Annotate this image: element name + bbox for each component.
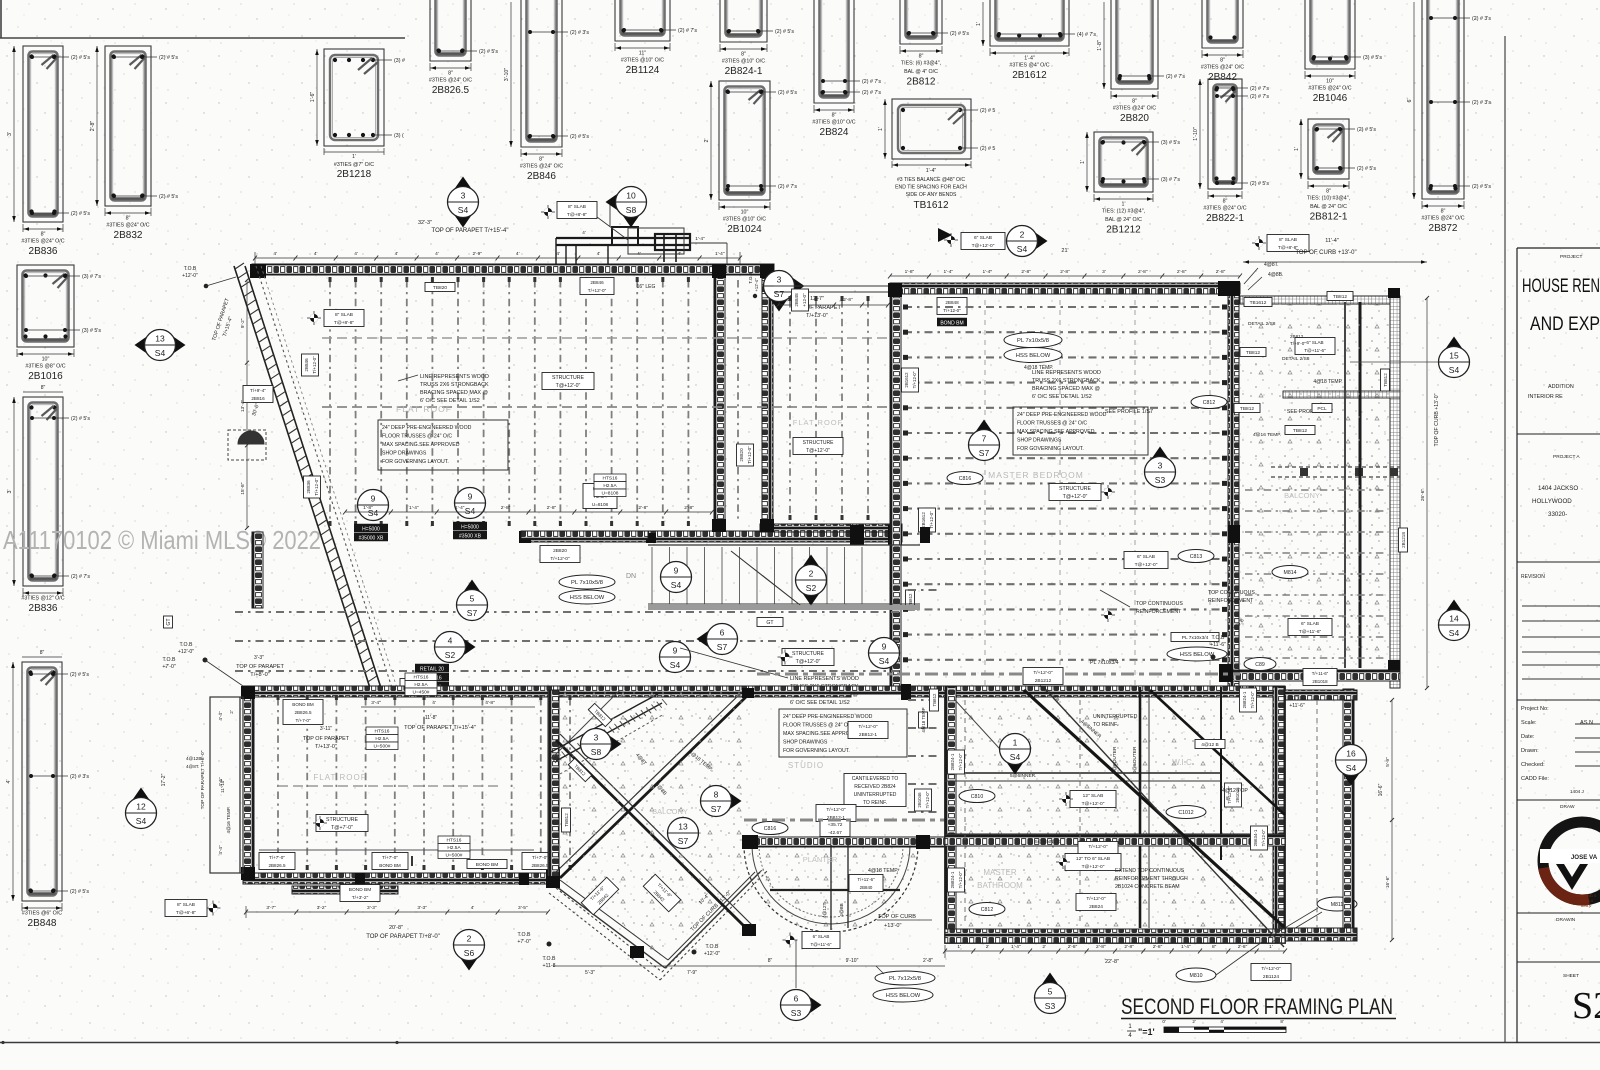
svg-text:8" SLAB: 8" SLAB [1279,237,1297,243]
svg-text:TB812: TB812 [1246,350,1260,356]
svg-text:2B826.5: 2B826.5 [268,863,286,868]
svg-text:JOSE VA: JOSE VA [1571,854,1598,861]
svg-text:S7: S7 [774,289,785,299]
svg-text:3'-10": 3'-10" [504,68,510,82]
svg-text:REVISION: REVISION [1521,574,1545,580]
pre-engineered note upper-left [378,420,508,470]
svg-text:T/+7'-0": T/+7'-0" [382,855,398,860]
svg-text:1': 1' [352,154,356,160]
svg-text:MASTER BEDROOM: MASTER BEDROOM [988,470,1084,480]
section marker 5/S7 [457,580,488,621]
svg-text:2B1212: 2B1212 [1106,225,1141,236]
svg-text:2B820: 2B820 [553,548,567,554]
svg-text:H=5000: H=5000 [362,526,380,532]
svg-text:T@+12'-0": T@+12'-0" [1082,864,1105,870]
svg-text:2B1046: 2B1046 [917,792,922,808]
svg-text:1'-4": 1'-4" [715,251,725,257]
svg-text:T/+11'-6": T/+11'-6" [857,877,875,882]
svg-text:2B812: 2B812 [1290,334,1304,339]
svg-text:2B824-1: 2B824-1 [950,753,955,770]
svg-text:T/+12-0": T/+12-0" [312,356,317,374]
planter半circle [742,835,948,932]
section marker 8/S7 [701,786,742,817]
svg-text:2B634-1: 2B634-1 [1253,829,1258,846]
svg-text:PL 7x12x5/8: PL 7x12x5/8 [889,976,921,982]
svg-text:4@6OUTER: 4@6OUTER [1132,746,1138,774]
svg-text:T/+12-0": T/+12-0" [1261,829,1266,846]
svg-text:+12'-0": +12'-0" [178,649,194,655]
right building walls [890,283,1240,294]
svg-text:9: 9 [674,566,679,576]
lower-left interior labels [259,849,534,851]
small boxes along corridor x902-945 [919,707,928,732]
svg-text:4@8B.: 4@8B. [1268,272,1283,278]
svg-text:1': 1' [878,127,884,131]
svg-text:C812: C812 [1203,400,1216,406]
svg-text:(2) # 5: (2) # 5 [980,108,995,114]
svg-text:9'-10": 9'-10" [846,958,859,964]
svg-text:2B842: 2B842 [1208,72,1237,83]
labels above bathroom [1023,668,1063,685]
svg-text:T/+12-0": T/+12-0" [943,308,961,313]
svg-text:T.O.B: T.O.B [748,272,753,284]
svg-text:TOP OF PARAPET T/+8'-0": TOP OF PARAPET T/+8'-0" [366,934,440,940]
strongback dashed line horiz [322,406,888,408]
svg-text:T@+11'-6": T@+11'-6" [810,942,831,947]
svg-text:T@+11'-6": T@+11'-6" [1304,348,1326,353]
svg-text:T/+13'-0": T/+13'-0" [806,313,828,319]
svg-text:14: 14 [1449,614,1459,624]
section marker 6/S7 [697,624,738,655]
svg-text:6: 6 [794,994,799,1004]
svg-text:T/+8'-0": T/+8'-0" [250,672,269,678]
svg-text:3': 3' [7,132,13,136]
svg-text:#3TIES @8" O/C: #3TIES @8" O/C [25,364,65,370]
svg-text:4': 4' [435,251,439,257]
svg-text:S4: S4 [1346,763,1357,773]
svg-text:PLANTER: PLANTER [803,855,838,864]
svg-text:#3TIES @24" O/C: #3TIES @24" O/C [1113,106,1156,112]
svg-text:16" LEG: 16" LEG [637,284,656,290]
svg-text:CADD File:: CADD File: [1521,776,1549,782]
svg-text:2B846: 2B846 [590,280,604,285]
svg-text:TOP OF PARAPET: TOP OF PARAPET [236,664,284,670]
svg-text:10": 10" [42,357,50,363]
svg-text:TB820: TB820 [433,285,447,291]
beam section detail 2B826.5 [429,0,498,96]
svg-text:8": 8" [41,385,46,391]
svg-text:1'-4": 1'-4" [1011,944,1021,950]
beam section detail 2B1124 [615,0,697,76]
svg-text:9: 9 [673,646,678,656]
svg-text:T@+11'-6": T@+11'-6" [1299,629,1322,635]
svg-text:Checked:: Checked: [1521,762,1545,768]
thick strongback line near planter [744,819,945,822]
beam section detail 2B832 [90,46,178,241]
svg-text:1': 1' [1269,944,1273,950]
svg-text:1': 1' [1122,202,1126,208]
svg-text:S4: S4 [1010,752,1021,762]
svg-text:22'-8": 22'-8" [1105,959,1119,965]
svg-text:A11170102 © Miami MLS® 2022: A11170102 © Miami MLS® 2022 [3,525,321,555]
svg-text:#3TIES @24" O/C: #3TIES @24" O/C [1308,86,1351,92]
section marker 3/S3 [1145,447,1176,488]
svg-text:HTS16: HTS16 [447,838,462,844]
svg-text:6' O/C SEE DETAIL 1/S2: 6' O/C SEE DETAIL 1/S2 [1032,394,1092,400]
svg-text:W.I.C: W.I.C [1172,758,1192,767]
svg-text:16'-6": 16'-6" [1378,783,1384,796]
svg-text:1: 1 [1013,738,1018,748]
svg-text:STRUCTURE: STRUCTURE [1059,486,1092,492]
svg-text:2': 2' [229,710,234,714]
svg-text:6' O/C SEE DETAIL 1/S2: 6' O/C SEE DETAIL 1/S2 [420,398,480,404]
title block [1517,248,1600,1043]
svg-text:TO REINF.: TO REINF. [863,800,887,806]
svg-text:DRAWIN: DRAWIN [1556,917,1576,923]
svg-text:BAL @ 4" O/C: BAL @ 4" O/C [904,69,938,75]
svg-text:12" TO 6" SLAB: 12" TO 6" SLAB [1076,856,1110,862]
svg-text:TRUSS 2X6 STRONGBACK: TRUSS 2X6 STRONGBACK [420,382,489,388]
svg-text:Drawn:: Drawn: [1521,748,1539,754]
svg-text:BALCONY: BALCONY [1284,491,1320,500]
svg-text:6': 6' [1407,99,1413,103]
svg-text:S4: S4 [155,348,166,358]
svg-text:S4: S4 [671,580,682,590]
svg-text:(3) # 5's: (3) # 5's [1161,140,1180,146]
svg-text:8": 8" [768,958,773,964]
svg-text:2B1218: 2B1218 [1401,532,1406,548]
beam section detail 2B836 [7,397,90,614]
svg-text:T@+12'-0": T@+12'-0" [556,383,581,389]
svg-text:TOP OF CURB: TOP OF CURB [878,914,916,920]
svg-text:T.O.B: T.O.B [163,657,177,663]
svg-text:1'-4": 1'-4" [944,269,954,275]
svg-text:2'-8": 2'-8" [1177,269,1187,275]
svg-text:M811: M811 [1331,902,1344,908]
svg-text:T/+12'-0": T/+12'-0" [1033,670,1053,676]
sheet border bottom [0,1042,1600,1044]
svg-text:2B816: 2B816 [251,396,265,401]
svg-text:2B1046: 2B1046 [1313,93,1348,104]
svg-text:FLAT ROOF: FLAT ROOF [313,773,366,782]
studio open area [235,611,900,613]
svg-text:4@12B.: 4@12B. [186,756,203,761]
svg-text:(2) # 7's: (2) # 7's [1250,94,1269,100]
svg-text:2B822-1: 2B822-1 [1206,213,1244,224]
svg-text:+11'-6": +11'-6" [1289,703,1305,709]
svg-text:PCL: PCL [1317,406,1327,412]
svg-text:HSS BELOW: HSS BELOW [886,993,921,999]
svg-text:8": 8" [40,650,45,656]
svg-text:FLAT ROOF: FLAT ROOF [793,418,843,427]
svg-text:TOP OF CURB +13'-0": TOP OF CURB +13'-0" [1434,393,1440,446]
8 slab box top right [1255,239,1263,247]
beam section detail 2B872 [1407,0,1491,234]
beam section detail 2B836 [7,46,90,257]
upper-left room truss dash lines [329,280,331,526]
svg-text:C816: C816 [764,826,777,832]
svg-text:H=5000: H=5000 [461,524,479,530]
svg-text:5'-3": 5'-3" [585,970,595,976]
section marker 2/S2 [796,555,827,606]
svg-text:T.O.B: T.O.B [184,266,197,272]
svg-text:4': 4' [395,251,399,257]
section marker 9/S4 [660,642,691,673]
section marker 12/S4 [126,788,157,829]
svg-text:2B848: 2B848 [28,918,57,929]
svg-text:10": 10" [741,210,749,216]
svg-text:T.O.B: T.O.B [706,944,720,950]
svg-text:(2) # 7's: (2) # 7's [862,79,881,85]
section marker 3/S7 [764,271,805,312]
svg-text:2'-8": 2'-8" [1124,944,1134,950]
svg-text:2'-8": 2'-8" [1068,944,1078,950]
svg-text:2B840: 2B840 [860,885,873,890]
svg-text:S3: S3 [1155,475,1166,485]
svg-text:4: 4 [448,636,453,646]
svg-text:33020-: 33020- [1548,511,1567,518]
svg-text:TB812: TB812 [932,693,937,706]
svg-text:2'-8": 2'-8" [1153,944,1163,950]
svg-text:REINFORCEMENT: REINFORCEMENT [1136,609,1182,615]
svg-text:DETAIL 2/S8: DETAIL 2/S8 [1248,321,1276,327]
svg-text:S3: S3 [791,1008,802,1018]
svg-text:(2) # 7's: (2) # 7's [71,574,90,580]
svg-text:1'-4": 1'-4" [1181,944,1191,950]
svg-text:(2) # 5's: (2) # 5's [71,55,90,61]
svg-text:T/+12'-0": T/+12'-0" [588,288,607,293]
studio-strip extra truss lines [908,589,940,591]
svg-text:S4: S4 [458,205,469,215]
svg-text:STUDIO: STUDIO [788,761,824,770]
svg-text:(2) # 7's: (2) # 7's [778,184,797,190]
beam section detail 2B1016 [17,265,101,382]
svg-text:AS N: AS N [1580,720,1593,726]
svg-text:+7'-0": +7'-0" [162,664,176,670]
svg-text:+7'-0": +7'-0" [517,939,531,945]
svg-text:STRUCTURE: STRUCTURE [792,651,825,657]
svg-text:MAX SPACING.SEE APPROVED: MAX SPACING.SEE APPROVED [382,442,460,448]
svg-text:H2.5A: H2.5A [414,682,428,688]
svg-text:4@18 TEMP.: 4@18 TEMP. [1313,379,1342,385]
svg-text:2'-9": 2'-9" [473,251,483,257]
svg-text:8" SLAB: 8" SLAB [568,204,586,210]
svg-text:11'-10": 11'-10" [220,779,225,793]
svg-text:4': 4' [582,230,586,235]
svg-text:TRUSS 2X6 STRONGBACK: TRUSS 2X6 STRONGBACK [1032,378,1101,384]
svg-text:U=450#: U=450# [413,690,430,696]
mid dim row above lower-left roof [361,706,535,708]
svg-text:8": 8" [1220,58,1225,64]
svg-text:S7: S7 [979,448,990,458]
svg-text:C1012: C1012 [1178,810,1193,816]
svg-text:C813: C813 [1190,554,1203,560]
svg-text:C810: C810 [971,794,984,800]
svg-text:2'-8": 2'-8" [1238,944,1248,950]
svg-text:2B836: 2B836 [29,603,58,614]
svg-text:7'-9": 7'-9" [687,970,697,976]
svg-text:13: 13 [678,822,688,832]
svg-text:HSS BELOW: HSS BELOW [1016,353,1051,359]
svg-text:4': 4' [471,905,475,911]
beam section detail 2B812 [900,0,969,88]
svg-text:#3TIES @12" O/C: #3TIES @12" O/C [21,596,64,602]
svg-text:#3TIES @10" O/C: #3TIES @10" O/C [812,120,855,126]
svg-text:4@12 B: 4@12 B [1201,742,1218,748]
svg-text:TOP OF PARAPET T/+15'-4": TOP OF PARAPET T/+15'-4" [432,228,509,234]
svg-text:4': 4' [597,251,601,257]
beam section detail 2B820 [1097,0,1185,124]
svg-text:(3) (: (3) ( [394,133,404,139]
svg-text:2B836: 2B836 [29,246,58,257]
svg-text:6" SLAB: 6" SLAB [1301,621,1319,627]
svg-text:(2) # 5: (2) # 5 [980,146,995,152]
svg-text:2B824-1: 2B824-1 [1242,691,1247,708]
svg-text:T/+12'-0": T/+12'-0" [550,556,570,562]
svg-text:9: 9 [371,494,376,504]
svg-text:RECEIVED 2B824: RECEIVED 2B824 [854,784,896,790]
svg-text:2'-8": 2'-8" [501,505,511,511]
svg-text:2B1016: 2B1016 [28,371,63,382]
svg-text:HTS16: HTS16 [375,729,390,735]
svg-text:2B1612: 2B1612 [1012,70,1047,81]
stair area bands [521,531,648,539]
svg-text:2B812-1: 2B812-1 [1310,212,1348,223]
upper-left labels [310,314,318,322]
svg-text:2'-8": 2'-8" [1021,269,1031,275]
svg-text:2B824: 2B824 [1089,904,1103,910]
svg-text:8": 8" [1441,209,1446,215]
svg-text:4': 4' [1220,1019,1224,1024]
svg-text:12" SLAB: 12" SLAB [1083,793,1104,799]
svg-text:T@+12'-0": T@+12'-0" [1063,494,1088,500]
studio/bathroom junction bands [830,686,905,694]
svg-text:11": 11" [639,51,646,57]
upper-left room walls [252,264,774,275]
svg-text:(2) # 7's: (2) # 7's [862,90,881,96]
svg-text:(4) # 7's: (4) # 7's [1077,32,1096,38]
svg-text:6' O/C SEE DETAIL 1/S2: 6' O/C SEE DETAIL 1/S2 [790,700,850,706]
svg-text:2B824-1: 2B824-1 [950,871,955,888]
svg-text:2'-8": 2'-8" [638,505,648,511]
svg-text:BOND BM: BOND BM [349,887,371,893]
svg-text:S7: S7 [717,642,728,652]
svg-text:TB812: TB812 [564,813,569,827]
section marker 3/S4 [448,177,479,228]
svg-text:#3TIES @24" O/C: #3TIES @24" O/C [21,239,64,245]
logo JV drafting [1540,822,1600,908]
svg-text:15: 15 [1449,351,1459,361]
svg-text:3': 3' [7,490,13,494]
svg-text:M810: M810 [1190,973,1203,979]
svg-text:24" DEEP PRE-ENGINEERED WOOD: 24" DEEP PRE-ENGINEERED WOOD [1017,412,1107,418]
section marker 4/S2 [435,632,476,663]
diamond bottom dims [553,965,760,967]
svg-text:T@+8'-8": T@+8'-8" [334,320,354,326]
svg-text:H2.5A: H2.5A [375,736,389,742]
svg-text:TOP OF PARAPET T/+15'-4": TOP OF PARAPET T/+15'-4" [404,725,476,731]
beam section detail 2B1046 [1305,0,1382,104]
svg-text:9: 9 [468,492,473,502]
svg-text:FLAT ROOF: FLAT ROOF [396,404,452,414]
svg-text:TIES: (12) #3@4",: TIES: (12) #3@4", [1102,209,1145,215]
bedroom vertical dashes [984,300,986,685]
beam section detail 2B824 [812,0,881,138]
svg-text:STRUCTURE: STRUCTURE [552,375,585,381]
svg-text:ADDITION: ADDITION [1548,384,1574,390]
svg-text:T@+12'-0": T@+12'-0" [1082,801,1105,807]
svg-text:DRAFTING S: DRAFTING S [1576,894,1597,898]
svg-text:LINE REPRESENTS WOOD: LINE REPRESENTS WOOD [790,676,859,682]
svg-text:T/+11-6": T/+11-6" [1312,671,1329,676]
svg-text:C89: C89 [1255,662,1265,668]
flat roof strip right of corridor [789,300,791,520]
svg-text:2B826.5: 2B826.5 [294,710,312,715]
svg-text:2B848: 2B848 [945,300,959,305]
svg-text:(2) # 5's: (2) # 5's [1250,181,1269,187]
svg-text:3'-7": 3'-7" [266,905,276,911]
svg-text:HTS16: HTS16 [414,675,429,681]
beam section detail 2B824-1 [720,0,794,77]
svg-text:T.O.B: T.O.B [180,642,194,648]
svg-text:C816: C816 [959,476,972,482]
svg-text:BALCONY: BALCONY [652,807,688,816]
svg-text:(2) # 3's: (2) # 3's [70,774,89,780]
right wing walls [1343,689,1354,941]
svg-text:SHEET: SHEET [1563,973,1579,979]
svg-text:6" SLAB: 6" SLAB [974,235,992,241]
svg-text:12: 12 [136,802,146,812]
section marker 5/S3 [1035,973,1066,1014]
svg-text:S2: S2 [806,583,817,593]
svg-text:SECOND FLOOR FRAMING PLAN: SECOND FLOOR FRAMING PLAN [1121,994,1393,1019]
svg-text:T/+7'-0": T/+7'-0" [269,855,285,860]
section marker 7/S7 [969,420,1000,461]
sheet border top-left box [0,0,2,38]
bathroom inner verticals dashed [1079,700,1081,925]
section marker 14/S4 [1439,600,1470,641]
svg-text:1404 J: 1404 J [1570,789,1584,794]
svg-text:Date:: Date: [1521,734,1535,740]
section marker 13/S7 [668,818,699,849]
svg-text:(2) # 5's: (2) # 5's [159,55,178,61]
svg-text:8": 8" [41,232,46,238]
svg-text:MAX SPACING SEE APPROVED: MAX SPACING SEE APPROVED [1017,429,1095,435]
svg-text:T/+12-0": T/+12-0" [958,753,963,770]
section marker 3/S8 [581,729,622,760]
beam section detail 2B822-1 [1193,79,1269,224]
svg-text:S2: S2 [445,650,456,660]
svg-text:8: 8 [714,790,719,800]
svg-text:#35000 XB: #35000 XB [359,535,384,541]
svg-text:H2.5A: H2.5A [447,845,461,851]
svg-text:T/+12'-0": T/+12'-0" [1261,966,1281,972]
section marker 2/S4 [1007,226,1048,257]
svg-text:4@16 TEMP.: 4@16 TEMP. [226,807,231,834]
svg-text:2B1612: 2B1612 [921,512,926,528]
svg-text:6" SLAB: 6" SLAB [813,934,830,939]
svg-text:TO REINF.: TO REINF. [1093,722,1118,728]
svg-text:4@8T.: 4@8T. [1264,262,1279,268]
svg-text:(2) # 5's: (2) # 5's [778,90,797,96]
svg-text:REINFORCEMENT: REINFORCEMENT [1208,598,1254,604]
svg-text:2B846: 2B846 [527,171,556,182]
svg-text:(2) # 3's: (2) # 3's [1472,100,1491,106]
svg-text:(3) # 7's: (3) # 7's [82,274,101,280]
svg-text:#3 TIES BALANCE @48" O/C: #3 TIES BALANCE @48" O/C [897,177,965,183]
svg-text:11'-4": 11'-4" [1325,238,1339,244]
svg-text:(2) # 5's: (2) # 5's [71,211,90,217]
